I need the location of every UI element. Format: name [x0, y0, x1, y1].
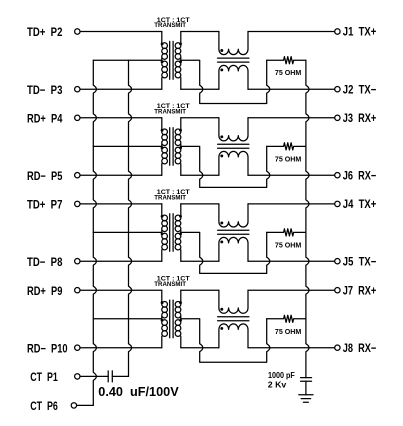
common-mode choke L3 [218, 204, 249, 261]
terminal J4 (J4 TX+) [335, 201, 340, 206]
wire T1 primary center tap to CT buses [93, 59, 162, 61]
terminal P9 (RD+ P9) [75, 288, 80, 293]
label P2 [27, 25, 63, 39]
svg-text:75 OHM: 75 OHM [275, 240, 301, 249]
terminal P1 (CT P1) [75, 374, 80, 379]
svg-text:TRANSMIT: TRANSMIT [154, 195, 186, 202]
label T4 ratio "1CT : 1CT" [157, 276, 190, 283]
wire choke L1 to J1 [248, 31, 335, 33]
svg-text:CT P6: CT P6 [30, 399, 58, 413]
wire T4 secondary bottom to choke L4 [181, 347, 219, 349]
terminal J7 (J7 RX+) [335, 288, 340, 293]
svg-text:TD− P8: TD− P8 [27, 255, 63, 269]
label J1 TX+ [343, 25, 377, 39]
terminal P3 (TD− P3) [75, 87, 80, 92]
wire choke L3 to J5 [248, 260, 335, 262]
resistor R1 75 OHM [267, 57, 306, 64]
svg-text:75 OHM: 75 OHM [275, 68, 301, 77]
label C2 value "1000 pF" [268, 371, 295, 380]
terminal P7 (TD+ P7) [75, 201, 80, 206]
wire P4 to T2 primary top [80, 117, 162, 119]
terminal P6 (CT P6) [71, 403, 76, 408]
wire P5 to T2 primary bottom [80, 174, 162, 176]
label J4 TX+ [343, 197, 377, 211]
label J7 RX+ [343, 283, 377, 297]
wire T4 secondary center tap to R4 (via node below) [181, 319, 270, 362]
wire choke L4 to J8 [248, 347, 335, 349]
wire T1 secondary top to choke L1 [181, 31, 219, 33]
terminal J3 (J3 RX+) [335, 115, 340, 120]
label C1 value "0.40 uF/100V" [98, 385, 179, 399]
svg-text:CT P1: CT P1 [30, 370, 58, 384]
label T1 "TRANSMIT" [154, 22, 186, 29]
svg-text:J2 TX−: J2 TX− [343, 82, 377, 96]
wire choke L2 to J3 [248, 117, 335, 119]
resistor R3 75 OHM [267, 229, 306, 236]
svg-text:TD+ P7: TD+ P7 [27, 198, 63, 212]
terminal J6 (J6 RX−) [335, 173, 340, 178]
label P3 [27, 83, 63, 97]
label T4 "TRANSMIT" [154, 281, 186, 288]
terminal P8 (TD− P8) [75, 259, 80, 264]
svg-text:TRANSMIT: TRANSMIT [154, 22, 186, 29]
terminal P4 (RD+ P4) [75, 115, 80, 120]
wire T3 secondary center tap to R3 (via node below) [181, 232, 270, 273]
label P7 [27, 198, 63, 212]
label T3 "TRANSMIT" [154, 195, 186, 202]
common-mode choke L4 [218, 290, 249, 348]
common-mode choke L2 [218, 118, 249, 175]
label J6 RX− [343, 168, 377, 182]
label J5 TX− [343, 254, 377, 268]
wire P2 to T1 primary top [80, 31, 162, 33]
transformer T4 (1CT:1CT) [161, 290, 182, 348]
label P4 [27, 111, 63, 125]
wire T2 primary center tap to CT buses [93, 145, 162, 147]
wire choke L3 to J4 [248, 203, 335, 205]
terminal J2 (J2 TX−) [335, 87, 340, 92]
label P9 [27, 284, 63, 298]
wire CT P1 to C1 [80, 375, 108, 377]
wire T4 primary center tap to CT buses [93, 318, 162, 320]
label R1 value "75 OHM" [275, 68, 301, 77]
svg-text:J4 TX+: J4 TX+ [343, 197, 377, 211]
label T1 ratio "1CT : 1CT" [157, 17, 190, 24]
wire T4 secondary top to choke L4 [181, 289, 219, 291]
terminal P10 (RD− P10) [75, 345, 80, 350]
svg-text:J3 RX+: J3 RX+ [343, 111, 377, 125]
wire termination bus (resistors to C2) [306, 60, 309, 377]
wire T2 secondary bottom to choke L2 [181, 174, 219, 176]
label J8 RX− [343, 341, 377, 355]
wire T3 primary center tap to CT buses [93, 231, 162, 233]
svg-text:RD+ P4: RD+ P4 [27, 111, 63, 125]
terminal J5 (J5 TX−) [335, 259, 340, 264]
wire CT bus B (center-tap bus to C1) [129, 60, 132, 376]
terminal J1 (J1 TX+) [335, 29, 340, 34]
svg-text:J8 RX−: J8 RX− [343, 341, 377, 355]
svg-text:RD− P5: RD− P5 [27, 169, 63, 183]
svg-text:75 OHM: 75 OHM [275, 154, 301, 163]
wire choke L2 to J6 [248, 174, 335, 176]
transformer T2 (1CT:1CT) [161, 118, 182, 175]
svg-text:1000 pF: 1000 pF [268, 371, 295, 380]
label J3 RX+ [343, 111, 377, 125]
svg-text:75 OHM: 75 OHM [275, 327, 301, 336]
wire P8 to T3 primary bottom [80, 260, 162, 262]
wire C1 to CT bus B [112, 375, 128, 377]
label T2 ratio "1CT : 1CT" [157, 103, 190, 110]
label R3 value "75 OHM" [275, 240, 301, 249]
wire P9 to T4 primary top [80, 289, 162, 291]
svg-text:J5 TX−: J5 TX− [343, 254, 377, 268]
terminal P5 (RD− P5) [75, 173, 80, 178]
capacitor C2 1000pF 2Kv [301, 378, 312, 395]
svg-text:RD− P10: RD− P10 [27, 341, 68, 355]
svg-text:J7 RX+: J7 RX+ [343, 283, 377, 297]
svg-text:0.40 uF/100V: 0.40 uF/100V [98, 385, 179, 399]
label R2 value "75 OHM" [275, 154, 301, 163]
transformer T1 (1CT:1CT) [161, 32, 182, 90]
svg-text:2 Kv: 2 Kv [268, 380, 287, 389]
ground (chassis) [299, 395, 313, 402]
label P8 [27, 255, 63, 269]
wire P7 to T3 primary top [80, 203, 162, 205]
label C2 rating "2 Kv" [268, 380, 287, 389]
common-mode choke L1 [218, 32, 249, 90]
resistor R4 75 OHM [267, 315, 306, 322]
terminal P2 (TD+ P2) [75, 29, 80, 34]
resistor R2 75 OHM [267, 143, 306, 150]
label P10 [27, 341, 68, 355]
wire choke L4 to J7 [248, 289, 335, 291]
capacitor C1 0.40uF [108, 371, 112, 382]
label P5 [27, 169, 63, 183]
svg-text:RD+ P9: RD+ P9 [27, 284, 63, 298]
wire T3 secondary bottom to choke L3 [181, 260, 219, 262]
transformer T3 (1CT:1CT) [161, 204, 182, 261]
label CT P6 [30, 399, 58, 413]
svg-text:TD− P3: TD− P3 [27, 83, 63, 97]
label CT P1 [30, 370, 58, 384]
wire P10 to T4 primary bottom [80, 347, 162, 349]
svg-text:J6 RX−: J6 RX− [343, 168, 377, 182]
svg-text:TD+ P2: TD+ P2 [27, 25, 63, 39]
svg-text:TRANSMIT: TRANSMIT [154, 281, 186, 288]
wire T2 secondary top to choke L2 [181, 117, 219, 119]
terminal J8 (J8 RX−) [335, 345, 340, 350]
wire T1 secondary center tap to R1 (via node below) [181, 60, 270, 103]
wire T2 secondary center tap to R2 (via node below) [181, 146, 270, 187]
wire choke L1 to J2 [248, 88, 335, 90]
wire CT P6 to CT bus A [77, 404, 94, 406]
wire T3 secondary top to choke L3 [181, 203, 219, 205]
label T2 "TRANSMIT" [154, 108, 186, 115]
label T3 ratio "1CT : 1CT" [157, 189, 190, 196]
wire T1 secondary bottom to choke L1 [181, 88, 219, 90]
label R4 value "75 OHM" [275, 327, 301, 336]
label J2 TX− [343, 82, 377, 96]
wire P3 to T1 primary bottom [80, 88, 162, 90]
svg-text:TRANSMIT: TRANSMIT [154, 108, 186, 115]
svg-text:J1 TX+: J1 TX+ [343, 25, 377, 39]
wire CT bus A (center-tap bus to CT P6) [93, 60, 96, 405]
